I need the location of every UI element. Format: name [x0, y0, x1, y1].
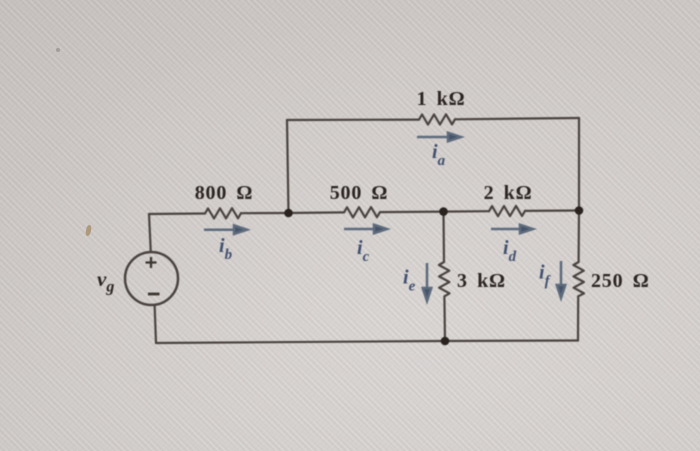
current arrow ie (down) [423, 263, 432, 301]
node C junction dot [575, 206, 584, 215]
wire: right vertical, top wire down to node C [578, 118, 580, 211]
svg-text:2 kΩ: 2 kΩ [484, 182, 533, 204]
svg-text:800 Ω: 800 Ω [195, 182, 254, 204]
current arrow ib [204, 225, 247, 234]
wire: right vertical, node C down to 250 Ohm [577, 211, 580, 263]
resistor 250 Ohm (vertical) [573, 262, 584, 296]
voltage source vg circle [125, 252, 178, 305]
current arrow if (down) [557, 261, 566, 298]
node A junction dot [284, 209, 293, 218]
wire: bottom horizontal, left to bottom node [156, 341, 445, 343]
wire: middle horizontal, 800 Ohm to node A [241, 212, 289, 214]
wire: middle horizontal, source to 800 Ohm [149, 212, 205, 215]
wire: middle horizontal, node A to 500 Ohm [289, 211, 345, 214]
resistor 1 kOhm (top) [419, 114, 455, 124]
svg-text:250 Ω: 250 Ω [591, 270, 650, 292]
speck: small gray dot upper-left [56, 48, 60, 52]
svg-text:ib: ib [219, 235, 233, 263]
minus sign of source vg [148, 293, 160, 296]
current arrow ic [344, 225, 387, 234]
node B junction dot [439, 207, 448, 216]
svg-text:if: if [539, 262, 552, 290]
resistor 3 kOhm (vertical) [439, 262, 450, 296]
wire: top horizontal, left segment [287, 118, 419, 121]
wire: right vertical, 250 Ohm to bottom wire [577, 296, 579, 340]
wire: middle horizontal, node B to 2 kOhm [444, 210, 490, 213]
wire: top-left vertical (node A up to top wire) [287, 120, 289, 213]
current arrow id [491, 225, 533, 234]
svg-text:ic: ic [357, 237, 370, 265]
current arrow ia [417, 133, 461, 142]
wire: top horizontal, right segment [455, 118, 579, 119]
wire: 3 kOhm branch, resistor to bottom node [443, 296, 446, 341]
bottom node junction dot [441, 337, 450, 346]
wire: left vertical, source bottom to bottom wire [155, 305, 156, 343]
wire: left vertical, middle wire down to source top [149, 214, 151, 252]
resistor 2 kOhm [489, 206, 525, 216]
wire: bottom horizontal, bottom node to right [445, 339, 578, 342]
wire: middle horizontal, 500 Ohm to node B [380, 211, 444, 214]
plus sign of source vg [146, 257, 157, 268]
svg-text:500 Ω: 500 Ω [330, 182, 389, 204]
svg-text:1 kΩ: 1 kΩ [417, 88, 466, 110]
svg-text:id: id [503, 237, 517, 265]
svg-text:3 kΩ: 3 kΩ [457, 270, 506, 292]
speck: tan mark left edge [85, 225, 92, 237]
svg-text:vg: vg [97, 267, 114, 296]
svg-text:ie: ie [403, 267, 416, 295]
wire: middle horizontal, 2 kOhm to node C [525, 209, 579, 212]
resistor 800 Ohm [205, 208, 241, 218]
resistor 500 Ohm [344, 207, 380, 217]
svg-text:ia: ia [432, 141, 446, 169]
wire: 3 kOhm branch, node B down to resistor [442, 212, 445, 262]
